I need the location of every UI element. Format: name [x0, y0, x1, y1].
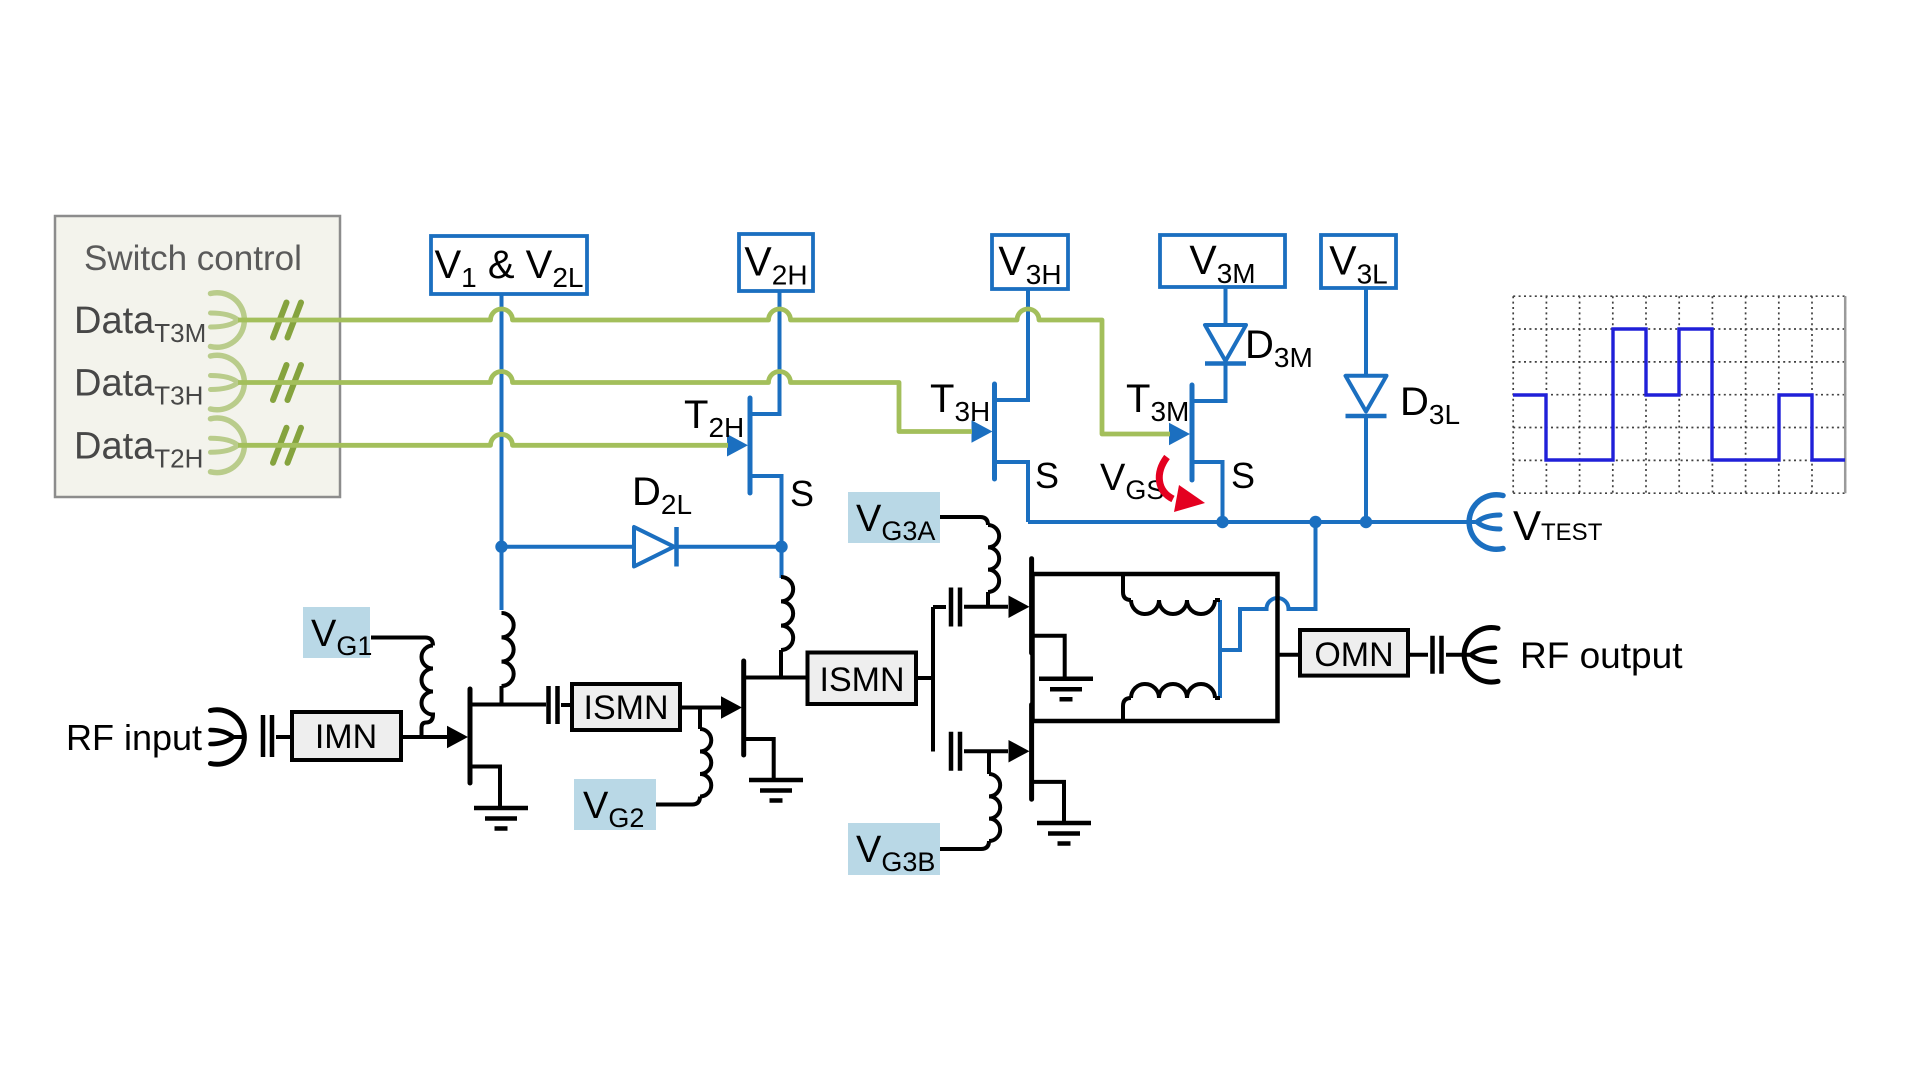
junction node at T2H source and D2L [775, 541, 787, 553]
connector DataT3H [211, 355, 245, 410]
inductor VG1 bias [422, 646, 434, 738]
wire VG3A to bias inductor [940, 517, 988, 525]
supply box V3L [1321, 235, 1396, 288]
inductor drain feed 1 (from V1 rail) [502, 613, 514, 686]
wire OMN to capacitor [1408, 653, 1428, 657]
wire T2H drain [752, 412, 780, 416]
wire RF input to capacitor [233, 735, 246, 739]
wire transistor 3A source to ground [1034, 636, 1065, 677]
supply box V3M [1160, 235, 1285, 287]
junction node T3M source [1216, 516, 1228, 528]
wire capacitor to ISMN [561, 703, 572, 707]
label VG2 [574, 779, 656, 830]
junction node at V1 rail and D2L [495, 541, 507, 553]
wire VTEST line [1028, 520, 1477, 524]
inductor VG3A bias [988, 525, 999, 592]
wire V3H rail to T3H drain [997, 289, 1029, 400]
wire DataT3H to T3H gate (green) [238, 372, 972, 432]
inductor transformer primary top [1123, 574, 1131, 600]
junction node transformer tap [1309, 516, 1321, 528]
bus slash DataT2H [273, 428, 301, 463]
wire DataT3M to T3M gate (green) [238, 309, 1170, 434]
svg-text:S: S [790, 473, 814, 514]
wire transistor 3B source to ground [1034, 782, 1064, 821]
connector VTEST [1469, 495, 1503, 550]
wire capacitor to RF output [1446, 653, 1471, 657]
transistor T2H gate arrow [727, 434, 748, 457]
red arrow VGS [1159, 457, 1173, 499]
switch control box [55, 216, 340, 497]
block OMN [1300, 630, 1408, 676]
wire V3M rail to diode D3M [1224, 287, 1228, 327]
transistor 3B gate arrow [1009, 740, 1030, 763]
diode D3M [1205, 325, 1246, 361]
wire ISMN to transistor 2 gate [680, 706, 722, 710]
connector DataT2H [211, 418, 245, 473]
wire transistor 2 drain to ISMN [746, 676, 808, 680]
capacitor gate A [951, 588, 960, 627]
diode D3L [1346, 376, 1387, 412]
label VG3A [848, 492, 940, 543]
connector RF output [1464, 628, 1498, 683]
capacitor input [263, 715, 272, 757]
capacitor gate B [951, 732, 960, 771]
transistor 2 gate arrow [721, 696, 742, 719]
inductor VG3B bias [989, 774, 1000, 841]
block ISMN 1 [572, 684, 680, 730]
wire T3M source to VTEST line [1194, 462, 1223, 522]
label VG3B [848, 823, 940, 875]
capacitor stage 1 to ISMN [549, 686, 558, 724]
junction node D3L [1360, 516, 1372, 528]
svg-text:RF output: RF output [1520, 635, 1683, 676]
output network box [1033, 574, 1278, 721]
transistor 2 channel bar [741, 661, 746, 755]
svg-text:S: S [1231, 455, 1255, 496]
transistor T3H [992, 384, 997, 479]
wire VG3B to bias inductor [940, 841, 989, 849]
capacitor output [1433, 636, 1442, 674]
wire VG1 to bias inductor [371, 638, 433, 646]
wire T2H source to node [752, 476, 782, 578]
connector RF input [211, 710, 245, 765]
transistor 3B channel bar [1029, 705, 1034, 800]
transistor T3H gate arrow [972, 420, 993, 443]
svg-text:ISMN: ISMN [820, 661, 905, 699]
transistor 3A gate arrow [1009, 595, 1030, 618]
wire capacitor to IMN [276, 735, 292, 739]
block ISMN 2 [808, 653, 917, 705]
supply box V2H [739, 234, 813, 291]
bus slash DataT3H [273, 365, 301, 400]
svg-text:RF input: RF input [66, 717, 202, 758]
wire IMN to transistor 1 gate [401, 735, 448, 739]
wire output to OMN [1278, 653, 1301, 657]
waveform trace VTEST [1513, 329, 1845, 460]
svg-text:Switch control: Switch control [84, 239, 302, 278]
wire V1&V2L rail [500, 294, 504, 610]
block IMN [292, 712, 401, 760]
diode D2L [504, 545, 634, 549]
waveform grid [1513, 296, 1845, 493]
wire DataT2H to T2H gate (green) [238, 434, 728, 445]
transistor T3M [1190, 385, 1195, 480]
svg-text:S: S [1035, 455, 1059, 496]
ground transistor 3A [1039, 679, 1093, 700]
svg-text:IMN: IMN [315, 718, 377, 756]
wire transistor 1 drain [472, 703, 546, 707]
inductor drain feed 2 (from T2H source node) [781, 577, 793, 650]
transistor T3M gate arrow [1169, 423, 1190, 446]
transistor 3A channel bar [1029, 559, 1034, 653]
inductor VG2 bias [700, 729, 711, 797]
wire VG2 to bias inductor [656, 797, 700, 805]
transistor T2H [748, 398, 753, 493]
supply box V3H [992, 235, 1068, 289]
wire D3M cathode to T3M drain [1194, 364, 1226, 401]
wire V2H rail to T2H drain [752, 291, 780, 414]
label VG1 [303, 607, 370, 658]
wire transformer tap to VTEST line (blue) [1220, 522, 1316, 698]
wire transistor 1 source to ground [472, 767, 500, 807]
wire ISMN2 split to both gates [916, 607, 933, 752]
wire T3H source to VTEST line [997, 462, 1029, 522]
svg-text:OMN: OMN [1314, 636, 1393, 674]
transistor 1 gate arrow [447, 726, 468, 749]
ground transistor 3B [1037, 823, 1091, 844]
ground transistor 1 [474, 808, 528, 829]
connector DataT3M [211, 293, 245, 348]
supply box V1 & V2L [431, 236, 587, 294]
ground transistor 2 [749, 780, 803, 801]
wire D3L cathode to VTEST line [1364, 416, 1368, 522]
inductor transformer secondary bottom [1123, 698, 1131, 721]
wire V3L rail to diode D3L [1364, 288, 1368, 377]
svg-text:ISMN: ISMN [584, 689, 669, 727]
transistor 1 channel bar [468, 689, 473, 783]
wire transistor 2 source to ground [746, 739, 774, 778]
bus slash DataT3M [273, 303, 301, 338]
